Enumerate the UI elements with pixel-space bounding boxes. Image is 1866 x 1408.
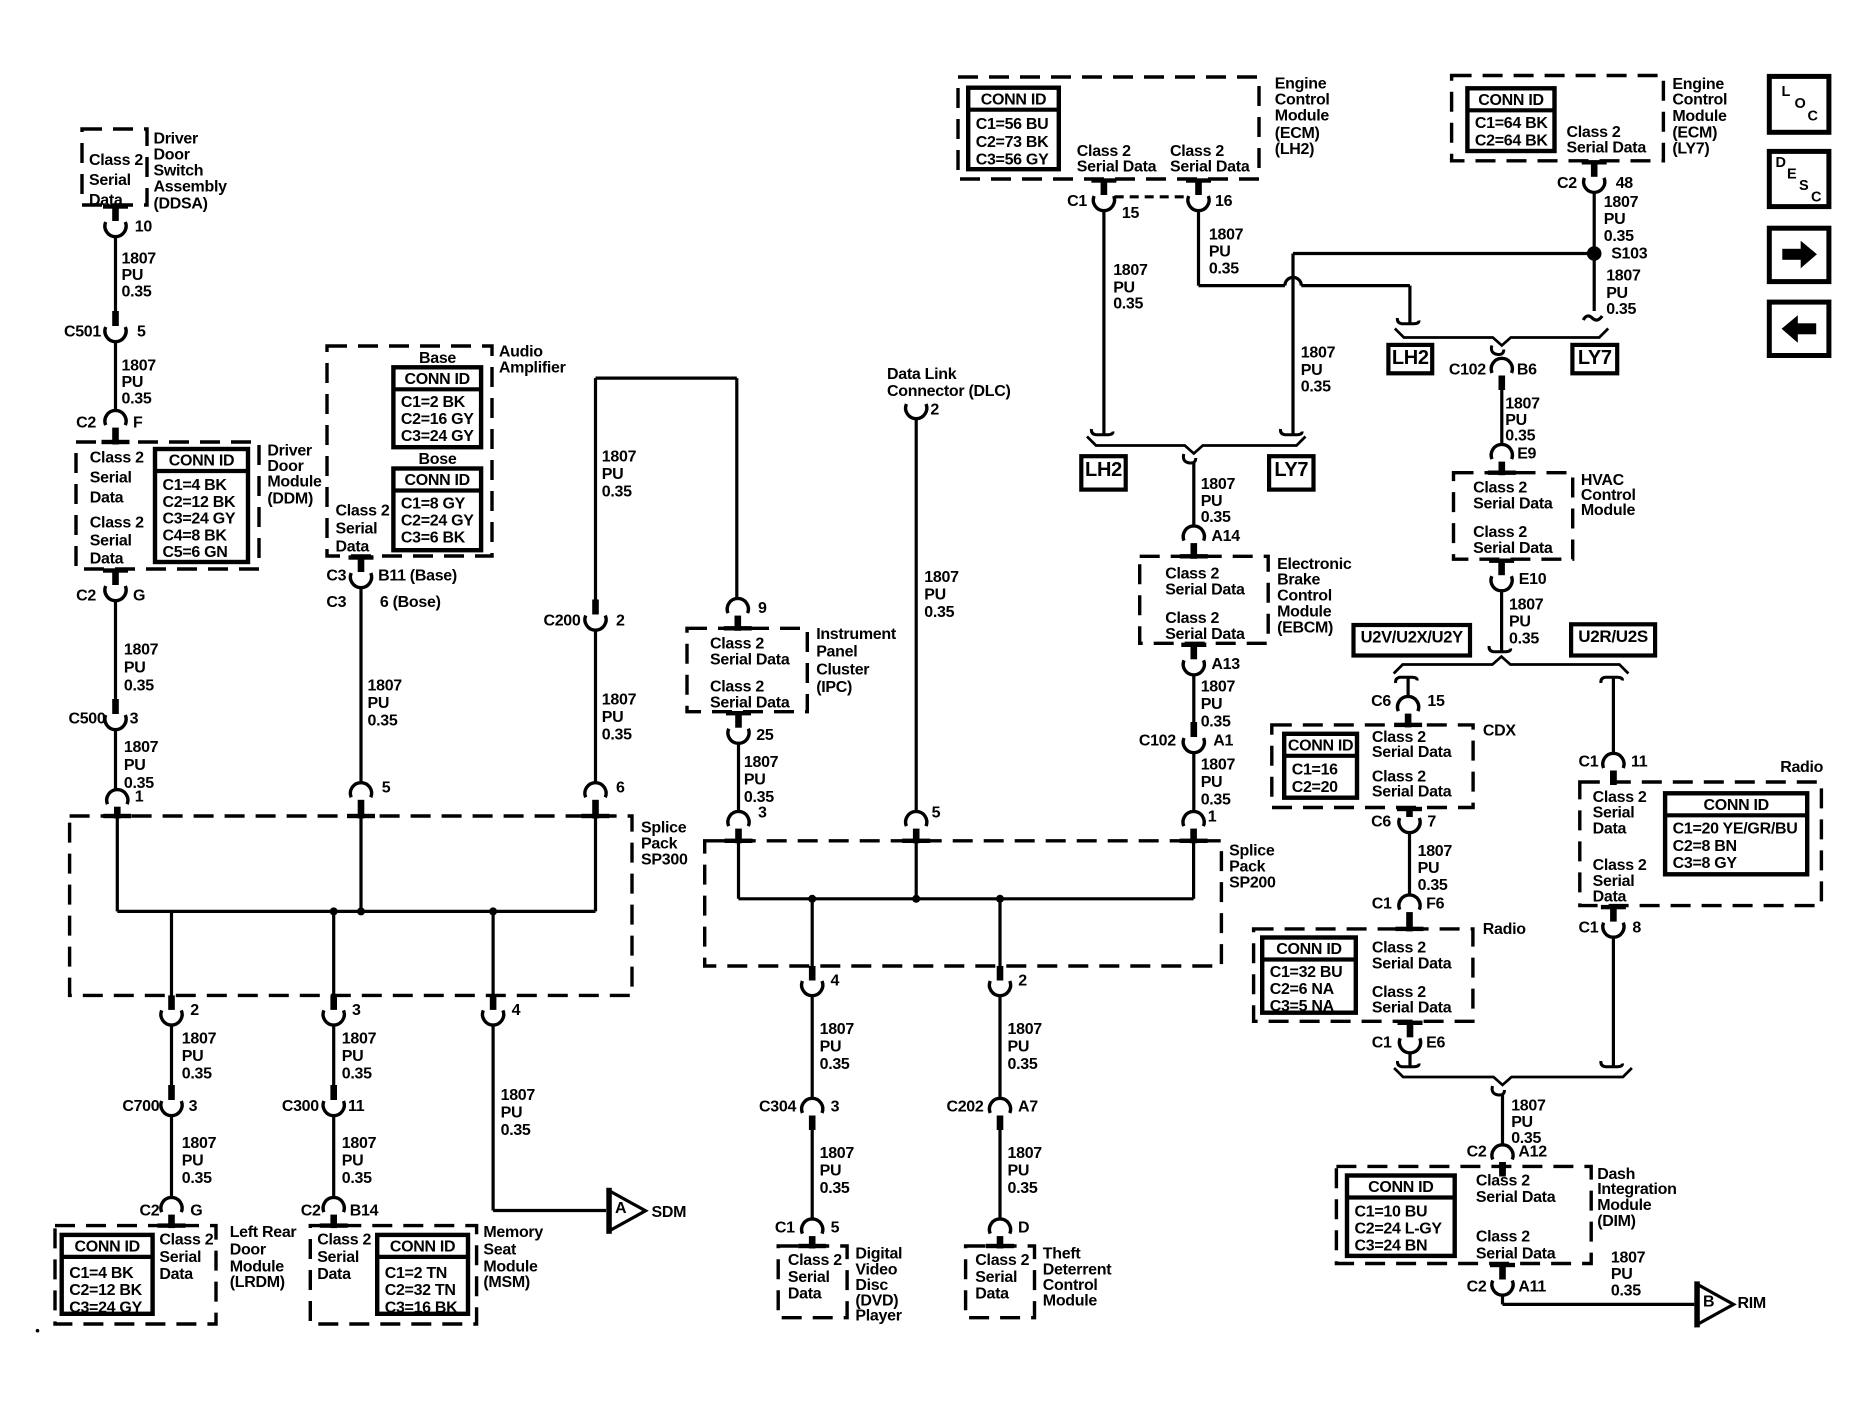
svg-text:Serial Data: Serial Data	[1476, 1189, 1556, 1206]
svg-text:Module: Module	[1597, 1197, 1652, 1214]
svg-text:Data Link: Data Link	[887, 366, 957, 383]
svg-text:0.35: 0.35	[1604, 228, 1634, 245]
svg-text:Class 2: Class 2	[1170, 143, 1224, 160]
svg-text:Module: Module	[1275, 108, 1330, 125]
svg-text:1807: 1807	[368, 678, 403, 695]
svg-text:Data: Data	[336, 539, 370, 556]
svg-text:Class 2: Class 2	[1372, 940, 1426, 957]
svg-text:9: 9	[758, 600, 767, 617]
svg-text:7: 7	[1427, 813, 1436, 830]
svg-text:PU: PU	[368, 695, 390, 712]
svg-text:A: A	[615, 1200, 627, 1217]
svg-text:15: 15	[1122, 205, 1140, 222]
svg-text:1: 1	[135, 789, 144, 806]
svg-text:10: 10	[135, 219, 153, 236]
svg-text:5: 5	[831, 1220, 840, 1237]
svg-text:Driver: Driver	[267, 442, 312, 459]
svg-text:PU: PU	[602, 709, 624, 726]
svg-text:C2: C2	[1557, 175, 1577, 192]
svg-text:Control: Control	[1277, 588, 1332, 605]
svg-text:C: C	[1808, 108, 1819, 124]
svg-text:8: 8	[1632, 920, 1641, 937]
svg-text:(ECM): (ECM)	[1672, 125, 1717, 142]
svg-text:1807: 1807	[182, 1030, 217, 1047]
svg-text:C1=16: C1=16	[1292, 762, 1338, 779]
svg-text:Serial Data: Serial Data	[1473, 496, 1553, 513]
svg-text:LH2: LH2	[1085, 459, 1122, 481]
svg-text:2: 2	[930, 401, 939, 418]
svg-text:1807: 1807	[1604, 194, 1639, 211]
svg-text:C1=32 BU: C1=32 BU	[1270, 964, 1343, 981]
svg-text:B6: B6	[1517, 361, 1537, 378]
svg-text:C304: C304	[759, 1098, 796, 1115]
svg-text:1807: 1807	[1201, 476, 1236, 493]
svg-text:Serial Data: Serial Data	[1372, 956, 1452, 973]
svg-text:Door: Door	[230, 1241, 266, 1258]
svg-text:A12: A12	[1518, 1144, 1547, 1161]
svg-text:O: O	[1795, 96, 1806, 112]
svg-text:1807: 1807	[501, 1087, 536, 1104]
svg-text:2: 2	[190, 1002, 199, 1019]
svg-text:C500: C500	[68, 711, 105, 728]
svg-text:C2: C2	[140, 1203, 160, 1220]
svg-text:CONN ID: CONN ID	[404, 472, 469, 489]
svg-text:G: G	[190, 1203, 202, 1220]
svg-text:E9: E9	[1517, 446, 1536, 463]
svg-text:F: F	[133, 415, 143, 432]
svg-text:Serial Data: Serial Data	[1567, 140, 1647, 157]
svg-text:Seat: Seat	[483, 1241, 517, 1258]
svg-text:0.35: 0.35	[924, 604, 954, 621]
svg-text:PU: PU	[1509, 613, 1531, 630]
svg-text:11: 11	[348, 1098, 365, 1115]
svg-text:Class 2: Class 2	[1165, 565, 1219, 582]
svg-text:1807: 1807	[1201, 678, 1236, 695]
svg-text:PU: PU	[1511, 1114, 1533, 1131]
svg-text:1807: 1807	[122, 358, 157, 375]
svg-text:Serial Data: Serial Data	[1372, 744, 1452, 761]
svg-text:CONN ID: CONN ID	[169, 453, 234, 470]
svg-text:PU: PU	[122, 267, 144, 284]
svg-text:B11 (Base): B11 (Base)	[378, 568, 457, 585]
svg-text:Door: Door	[267, 458, 303, 475]
svg-text:5: 5	[382, 780, 391, 797]
svg-text:C2: C2	[301, 1203, 321, 1220]
svg-text:C2: C2	[1467, 1279, 1487, 1296]
svg-text:Serial Data: Serial Data	[1165, 581, 1245, 598]
svg-text:0.35: 0.35	[342, 1065, 372, 1082]
svg-text:C2=64 BK: C2=64 BK	[1475, 132, 1548, 149]
svg-text:1807: 1807	[1509, 596, 1544, 613]
svg-text:Data: Data	[1593, 889, 1627, 906]
svg-text:PU: PU	[820, 1162, 842, 1179]
svg-text:(DDM): (DDM)	[267, 491, 313, 508]
svg-text:6: 6	[616, 780, 625, 797]
svg-text:0.35: 0.35	[501, 1122, 531, 1139]
svg-text:C1: C1	[1578, 754, 1598, 771]
svg-text:Panel: Panel	[816, 644, 857, 661]
svg-text:0.35: 0.35	[368, 713, 398, 730]
svg-text:Memory: Memory	[483, 1224, 543, 1241]
svg-text:C3=5 NA: C3=5 NA	[1270, 998, 1335, 1015]
svg-text:Amplifier: Amplifier	[499, 360, 566, 377]
svg-text:3: 3	[758, 804, 767, 821]
svg-text:1: 1	[1208, 809, 1217, 826]
svg-text:0.35: 0.35	[602, 727, 632, 744]
svg-text:U2V/U2X/U2Y: U2V/U2X/U2Y	[1361, 628, 1463, 646]
svg-text:Integration: Integration	[1597, 1181, 1676, 1198]
svg-text:PU: PU	[124, 757, 146, 774]
svg-text:LY7: LY7	[1274, 459, 1308, 481]
svg-text:C2=6 NA: C2=6 NA	[1270, 981, 1335, 998]
svg-text:PU: PU	[1606, 285, 1628, 302]
svg-text:C6: C6	[1371, 813, 1391, 830]
svg-text:1807: 1807	[1209, 227, 1244, 244]
svg-text:Serial Data: Serial Data	[1473, 540, 1553, 557]
svg-text:0.35: 0.35	[1505, 428, 1535, 445]
svg-text:C: C	[1811, 189, 1822, 205]
svg-text:15: 15	[1427, 693, 1445, 710]
svg-text:L: L	[1782, 84, 1791, 100]
svg-text:C102: C102	[1139, 732, 1176, 749]
svg-text:C300: C300	[282, 1098, 319, 1115]
svg-text:Data: Data	[317, 1266, 351, 1283]
svg-text:Data: Data	[788, 1286, 822, 1303]
svg-text:Left Rear: Left Rear	[230, 1224, 297, 1241]
svg-text:Instrument: Instrument	[816, 626, 897, 643]
svg-text:C1: C1	[1372, 1035, 1392, 1052]
svg-text:F6: F6	[1426, 895, 1444, 912]
svg-text:PU: PU	[1008, 1038, 1030, 1055]
svg-text:C501: C501	[64, 324, 101, 341]
svg-text:Class 2: Class 2	[710, 678, 764, 695]
svg-text:CDX: CDX	[1483, 723, 1517, 740]
svg-text:C2=16 GY: C2=16 GY	[401, 411, 474, 428]
svg-text:C2=32 TN: C2=32 TN	[385, 1282, 456, 1299]
svg-text:A14: A14	[1211, 528, 1240, 545]
svg-text:Class 2: Class 2	[1473, 480, 1527, 497]
svg-text:Class 2: Class 2	[317, 1232, 371, 1249]
svg-text:C2: C2	[1467, 1144, 1487, 1161]
svg-text:0.35: 0.35	[1418, 877, 1448, 894]
svg-text:Radio: Radio	[1483, 921, 1526, 938]
svg-text:SP200: SP200	[1229, 874, 1276, 891]
svg-text:C1: C1	[1372, 895, 1392, 912]
svg-text:3: 3	[189, 1098, 198, 1115]
svg-text:CONN ID: CONN ID	[1276, 941, 1341, 958]
svg-text:1807: 1807	[820, 1145, 855, 1162]
svg-text:Pack: Pack	[641, 836, 678, 853]
svg-text:PU: PU	[182, 1048, 204, 1065]
svg-text:(DDSA): (DDSA)	[154, 196, 208, 213]
svg-text:4: 4	[512, 1002, 521, 1019]
svg-text:Control: Control	[1275, 92, 1330, 109]
svg-text:Player: Player	[855, 1308, 901, 1325]
svg-text:C6: C6	[1371, 693, 1391, 710]
svg-text:RIM: RIM	[1738, 1295, 1766, 1312]
svg-text:Class 2: Class 2	[1593, 789, 1647, 806]
svg-text:Class 2: Class 2	[710, 636, 764, 653]
svg-text:C2=24 L-GY: C2=24 L-GY	[1355, 1221, 1443, 1238]
svg-text:Serial: Serial	[975, 1269, 1017, 1286]
svg-text:0.35: 0.35	[1201, 509, 1231, 526]
svg-text:Pack: Pack	[1229, 858, 1266, 875]
svg-text:C3=24 GY: C3=24 GY	[401, 428, 474, 445]
svg-text:C1=64 BK: C1=64 BK	[1475, 115, 1548, 132]
svg-text:0.35: 0.35	[1201, 791, 1231, 808]
svg-text:PU: PU	[1418, 860, 1440, 877]
svg-text:Driver: Driver	[154, 131, 199, 148]
svg-text:C3=24 GY: C3=24 GY	[69, 1299, 142, 1316]
svg-text:(EBCM): (EBCM)	[1277, 620, 1333, 637]
svg-text:0.35: 0.35	[182, 1170, 212, 1187]
svg-text:PU: PU	[1201, 696, 1223, 713]
svg-text:PU: PU	[602, 466, 624, 483]
svg-text:1807: 1807	[182, 1135, 217, 1152]
svg-text:1807: 1807	[602, 449, 637, 466]
svg-text:1807: 1807	[1008, 1145, 1043, 1162]
svg-text:Serial Data: Serial Data	[710, 694, 790, 711]
svg-text:0.35: 0.35	[1209, 261, 1239, 278]
svg-text:0.35: 0.35	[182, 1065, 212, 1082]
svg-text:CONN ID: CONN ID	[981, 91, 1046, 108]
svg-text:C2=12 BK: C2=12 BK	[163, 494, 236, 511]
svg-text:PU: PU	[501, 1104, 523, 1121]
svg-text:3: 3	[130, 711, 139, 728]
svg-text:(IPC): (IPC)	[816, 679, 852, 696]
svg-text:Assembly: Assembly	[154, 179, 228, 196]
svg-text:1807: 1807	[924, 569, 959, 586]
svg-text:C1=10 BU: C1=10 BU	[1355, 1203, 1428, 1220]
svg-text:Class 2: Class 2	[1077, 143, 1131, 160]
svg-text:Class 2: Class 2	[1165, 610, 1219, 627]
svg-text:Class 2: Class 2	[1476, 1173, 1530, 1190]
svg-text:C3: C3	[326, 568, 346, 585]
svg-text:PU: PU	[342, 1152, 364, 1169]
svg-text:CONN ID: CONN ID	[1703, 797, 1768, 814]
svg-text:C1=2 BK: C1=2 BK	[401, 394, 466, 411]
svg-text:PU: PU	[122, 374, 144, 391]
svg-text:C5=6 GN: C5=6 GN	[163, 544, 228, 561]
svg-text:1807: 1807	[1201, 756, 1236, 773]
svg-text:0.35: 0.35	[1201, 713, 1231, 730]
svg-text:Data: Data	[975, 1286, 1009, 1303]
svg-text:C1=2 TN: C1=2 TN	[385, 1265, 447, 1282]
svg-text:PU: PU	[1113, 279, 1135, 296]
svg-text:Serial Data: Serial Data	[1170, 158, 1250, 175]
svg-text:Data: Data	[90, 490, 124, 507]
svg-text:B14: B14	[350, 1203, 379, 1220]
svg-text:C2=73 BK: C2=73 BK	[976, 134, 1049, 151]
svg-text:C3: C3	[326, 594, 346, 611]
svg-text:C1=8 GY: C1=8 GY	[401, 496, 466, 513]
svg-text:Cluster: Cluster	[816, 662, 869, 679]
svg-text:(LH2): (LH2)	[1275, 141, 1314, 158]
svg-text:0.35: 0.35	[1606, 301, 1636, 318]
svg-text:Serial Data: Serial Data	[1077, 158, 1157, 175]
svg-text:Data: Data	[159, 1266, 193, 1283]
svg-text:PU: PU	[342, 1048, 364, 1065]
svg-text:(ECM): (ECM)	[1275, 125, 1320, 142]
svg-text:(MSM): (MSM)	[483, 1274, 530, 1291]
svg-text:CONN ID: CONN ID	[1288, 738, 1353, 755]
svg-text:48: 48	[1616, 175, 1634, 192]
svg-text:C2=24 GY: C2=24 GY	[401, 513, 474, 530]
svg-text:Serial: Serial	[159, 1249, 201, 1266]
svg-text:Door: Door	[154, 147, 190, 164]
svg-text:2: 2	[1018, 973, 1027, 990]
svg-text:C1=4 BK: C1=4 BK	[69, 1265, 134, 1282]
svg-text:1807: 1807	[124, 642, 159, 659]
svg-text:Switch: Switch	[154, 163, 204, 180]
svg-text:B: B	[1703, 1293, 1714, 1310]
svg-text:LY7: LY7	[1578, 347, 1612, 369]
svg-text:Digital: Digital	[855, 1246, 902, 1263]
svg-text:2: 2	[616, 613, 625, 630]
svg-text:D: D	[1776, 155, 1786, 171]
svg-text:C2=12 BK: C2=12 BK	[69, 1282, 142, 1299]
svg-text:PU: PU	[1209, 244, 1231, 261]
svg-text:5: 5	[932, 804, 941, 821]
svg-text:Serial Data: Serial Data	[1165, 626, 1245, 643]
svg-text:SP300: SP300	[641, 852, 688, 869]
svg-text:C1=4 BK: C1=4 BK	[163, 477, 228, 494]
svg-text:25: 25	[756, 727, 774, 744]
svg-text:Bose: Bose	[419, 451, 457, 468]
svg-text:Data: Data	[1593, 820, 1627, 837]
svg-text:C1: C1	[1067, 193, 1087, 210]
svg-text:S: S	[1799, 178, 1809, 194]
svg-text:CONN ID: CONN ID	[74, 1239, 139, 1256]
svg-text:0.35: 0.35	[1008, 1180, 1038, 1197]
svg-text:0.35: 0.35	[1008, 1056, 1038, 1073]
svg-text:PU: PU	[924, 587, 946, 604]
svg-text:Serial Data: Serial Data	[710, 652, 790, 669]
svg-text:0.35: 0.35	[124, 678, 154, 695]
svg-text:Serial: Serial	[788, 1269, 830, 1286]
svg-text:CONN ID: CONN ID	[404, 371, 469, 388]
svg-text:PU: PU	[124, 660, 146, 677]
svg-text:1807: 1807	[1418, 843, 1453, 860]
svg-text:1807: 1807	[122, 251, 157, 268]
svg-text:C3=24 GY: C3=24 GY	[163, 511, 236, 528]
svg-text:A1: A1	[1213, 732, 1233, 749]
svg-text:Serial: Serial	[90, 533, 132, 550]
svg-text:Serial: Serial	[1593, 873, 1635, 890]
svg-text:Class 2: Class 2	[90, 450, 144, 467]
svg-text:C1: C1	[1578, 920, 1598, 937]
svg-text:Serial: Serial	[317, 1249, 359, 1266]
svg-text:0.35: 0.35	[1509, 630, 1539, 647]
svg-text:Engine: Engine	[1275, 76, 1327, 93]
svg-text:G: G	[133, 588, 145, 605]
svg-text:PU: PU	[1604, 211, 1626, 228]
svg-text:Class 2: Class 2	[1593, 857, 1647, 874]
svg-text:C202: C202	[946, 1098, 983, 1115]
svg-text:(DIM): (DIM)	[1597, 1213, 1636, 1230]
svg-text:Class 2: Class 2	[90, 515, 144, 532]
svg-text:Audio: Audio	[499, 344, 543, 361]
svg-text:Engine: Engine	[1672, 76, 1724, 93]
svg-text:Class 2: Class 2	[1567, 124, 1621, 141]
svg-text:1807: 1807	[342, 1030, 377, 1047]
svg-text:Deterrent: Deterrent	[1043, 1262, 1112, 1279]
svg-text:Serial: Serial	[90, 470, 132, 487]
svg-text:Serial: Serial	[1593, 805, 1635, 822]
svg-text:Data: Data	[90, 551, 124, 568]
svg-text:Base: Base	[419, 350, 456, 367]
svg-text:1807: 1807	[820, 1021, 855, 1038]
svg-text:1807: 1807	[1511, 1097, 1546, 1114]
svg-text:C3=8 GY: C3=8 GY	[1673, 855, 1738, 872]
svg-text:C1=20 YE/GR/BU: C1=20 YE/GR/BU	[1673, 821, 1798, 838]
svg-text:3: 3	[831, 1098, 840, 1115]
svg-text:S103: S103	[1611, 245, 1648, 262]
svg-text:Serial Data: Serial Data	[1372, 999, 1452, 1016]
svg-text:C4=8 BK: C4=8 BK	[163, 527, 228, 544]
svg-text:Module: Module	[1043, 1292, 1098, 1309]
svg-text:Serial Data: Serial Data	[1372, 783, 1452, 800]
svg-text:C1: C1	[775, 1220, 795, 1237]
svg-text:CONN ID: CONN ID	[1478, 92, 1543, 109]
svg-text:Module: Module	[1277, 604, 1332, 621]
svg-text:C2: C2	[76, 588, 96, 605]
svg-text:0.35: 0.35	[1301, 379, 1331, 396]
svg-text:C200: C200	[543, 613, 580, 630]
svg-text:C3=24 BN: C3=24 BN	[1355, 1238, 1428, 1255]
svg-text:PU: PU	[1201, 493, 1223, 510]
svg-text:A11: A11	[1518, 1279, 1546, 1296]
svg-text:0.35: 0.35	[820, 1056, 850, 1073]
svg-text:11: 11	[1631, 754, 1648, 771]
svg-text:0.35: 0.35	[602, 484, 632, 501]
svg-text:Class 2: Class 2	[159, 1232, 213, 1249]
svg-text:1807: 1807	[744, 754, 779, 771]
svg-text:Serial: Serial	[336, 521, 378, 538]
svg-text:Module: Module	[1581, 502, 1636, 519]
svg-text:3: 3	[352, 1002, 361, 1019]
svg-text:C3=6 BK: C3=6 BK	[401, 530, 466, 547]
svg-text:1807: 1807	[1301, 345, 1336, 362]
svg-text:Class 2: Class 2	[1473, 524, 1527, 541]
svg-text:16: 16	[1215, 193, 1233, 210]
svg-text:Serial: Serial	[89, 172, 131, 189]
svg-text:1807: 1807	[1505, 396, 1540, 413]
svg-text:Electronic: Electronic	[1277, 556, 1352, 573]
svg-text:A13: A13	[1211, 656, 1240, 673]
svg-text:1807: 1807	[602, 692, 637, 709]
svg-text:CONN ID: CONN ID	[390, 1239, 455, 1256]
svg-text:0.35: 0.35	[122, 391, 152, 408]
svg-text:Brake: Brake	[1277, 572, 1320, 589]
svg-text:Control: Control	[1672, 92, 1727, 109]
svg-text:PU: PU	[1301, 362, 1323, 379]
svg-text:6 (Bose): 6 (Bose)	[380, 594, 441, 611]
svg-text:PU: PU	[820, 1038, 842, 1055]
svg-text:C3=16 BK: C3=16 BK	[385, 1299, 458, 1316]
svg-text:A7: A7	[1018, 1098, 1038, 1115]
svg-text:0.35: 0.35	[122, 284, 152, 301]
svg-text:PU: PU	[744, 771, 766, 788]
svg-text:Class 2: Class 2	[975, 1252, 1029, 1269]
svg-text:Class 2: Class 2	[89, 152, 143, 169]
svg-text:C2: C2	[76, 415, 96, 432]
svg-text:C700: C700	[122, 1098, 159, 1115]
svg-text:D: D	[1018, 1220, 1029, 1237]
svg-text:U2R/U2S: U2R/U2S	[1578, 627, 1648, 646]
svg-text:C2=8 BN: C2=8 BN	[1673, 838, 1737, 855]
svg-text:PU: PU	[182, 1152, 204, 1169]
